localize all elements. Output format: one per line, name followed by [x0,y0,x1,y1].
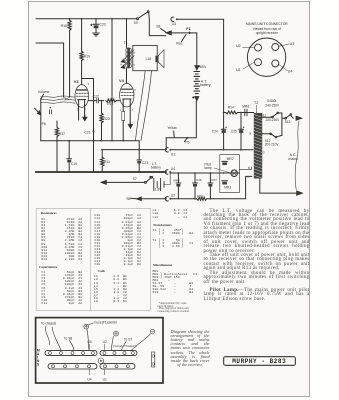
hinge bracket [152,352,155,367]
svg-text:U3: U3 [290,42,295,46]
svg-text:MR6: MR6 [242,105,249,109]
svg-text:220-230V: 220-230V [266,118,281,122]
svg-text:200-210V: 200-210V [265,143,280,147]
fuse F1 [189,32,191,34]
svg-text:P5: P5 [185,140,189,144]
contact strip row 2 left [48,364,97,369]
svg-text:60V: 60V [200,65,207,69]
svg-text:S7: S7 [133,177,137,181]
screw hole [76,365,79,368]
svg-text:U1: U1 [103,378,107,382]
svg-text:C25: C25 [231,130,237,134]
capacitor C20 [95,18,97,20]
svg-text:battery: battery [200,83,211,87]
svg-text:C23: C23 [142,161,148,165]
right text column [204,210,310,302]
center pivot [98,358,104,364]
wire: T2 b tap to rectifier [239,167,251,170]
wire: HT+ top rail [36,18,136,20]
connector pin U2 [255,44,262,51]
svg-text:1: 1 [120,109,122,112]
svg-text:7: 7 [132,109,134,112]
svg-text:R17: R17 [59,132,65,136]
screw hole [113,352,116,355]
svg-text:C24: C24 [212,130,218,134]
svg-text:T1: T1 [124,41,128,45]
HT+ arrow +60V [195,66,199,70]
svg-text:MR2: MR2 [227,157,234,161]
screw hole [60,352,63,355]
svg-text:1.5V: 1.5V [155,187,163,191]
svg-text:U3: U3 [172,22,176,26]
resistor R20 [101,101,103,141]
screw hole [82,352,85,355]
svg-text:battery: battery [151,166,161,170]
contact strip row 1 left [45,350,97,355]
rectifier MR3 [222,180,228,182]
screw hole [104,365,107,368]
svg-text:upright receiver: upright receiver [256,31,279,35]
svg-text:U4: U4 [87,378,91,382]
svg-text:R19: R19 [84,55,90,59]
svg-text:U1: U1 [236,68,241,72]
A.C. mains arrow bottom [260,179,296,194]
contact strip row 2 right [100,364,135,369]
screw hole [88,365,91,368]
svg-text:R13: R13 [197,195,203,199]
wire: T1 to V4 anode [126,68,128,83]
screw hole [115,365,118,368]
wire: AVC line [41,140,139,142]
wire: screen feed [111,18,113,20]
resistor R17 [56,121,58,141]
svg-text:b: b [134,50,136,54]
contact assembly panel [36,318,163,383]
panel wiring curves [52,327,61,351]
svg-text:S: S [37,363,40,367]
capacitor C25 [240,113,242,150]
svg-text:S9: S9 [134,21,138,25]
svg-text:R11: R11 [104,160,110,164]
svg-text:R18: R18 [61,24,67,28]
wire: lower line [102,149,167,151]
screw hole [71,352,74,355]
contact U2 [165,197,168,201]
screw hole [92,352,95,355]
svg-text:4: 4 [84,109,86,112]
MURPHY - B283 model box [223,356,297,366]
svg-text:C26: C26 [196,178,202,182]
svg-text:U4: U4 [288,69,293,73]
screw hole [132,352,135,355]
svg-text:C27: C27 [211,178,217,182]
connector pin U4 [272,60,279,67]
svg-text:S6: S6 [126,197,130,201]
rectifier MR5 [177,173,179,183]
wire: T1 primary feed [126,18,128,20]
loudspeaker cone [155,56,158,63]
resistor R19 [81,18,83,20]
svg-text:S8: S8 [156,25,160,29]
svg-text:P6: P6 [42,122,46,126]
resistor R12 [106,99,116,102]
svg-text:6: 6 [134,89,136,92]
svg-text:To S8: To S8 [64,336,73,340]
rectifier MR2 [222,160,228,162]
svg-text:To S7: To S7 [124,338,133,342]
ground below V3 [84,105,86,117]
svg-text:R14: R14 [228,105,234,109]
screw hole [123,352,126,355]
resistor R13 [171,198,197,200]
wire: V3 anode coupling [82,79,94,129]
component tables [41,212,57,215]
switch S9 [137,18,139,20]
svg-text:mains: mains [288,157,298,161]
resistor R18 [69,18,71,20]
contact U3 [171,17,174,21]
svg-text:S13: S13 [285,120,291,124]
screw hole [64,365,67,368]
rectifier unit frame [220,155,240,193]
contact strip row 1 right [100,350,137,355]
svg-text:U3: U3 [87,340,91,344]
L.T. battery cells [154,178,164,190]
mains connector circle [247,38,285,76]
rectifier MR6 [237,112,253,114]
connector pin U3 [272,44,279,51]
svg-text:S4D: S4D [267,99,274,103]
resistor R11 [101,150,103,172]
svg-text:U2: U2 [103,340,107,344]
capacitor C26 [194,173,196,183]
screw hole [52,365,55,368]
contact U4 [165,170,168,174]
chassis bus [36,171,167,173]
wire: F1 down to HT battery [196,33,198,65]
svg-text:c: c [134,63,136,67]
svg-text:V3: V3 [74,79,80,84]
svg-text:MR3: MR3 [224,185,231,189]
svg-text:Volume: Volume [38,90,50,94]
svg-text:MR5: MR5 [173,178,180,182]
svg-text:Yellow: Yellow [167,126,177,130]
svg-text:To chassis: To chassis [41,322,57,326]
svg-text:L18: L18 [146,57,152,61]
switch S13 [282,117,285,119]
LT plus terminal [114,331,119,336]
wire: U3 to right corner [178,19,224,150]
svg-text:R20: R20 [103,117,109,121]
svg-text:U1: U1 [171,152,175,156]
capacitor C19 [68,141,70,172]
wire: rectifier feed [224,112,226,114]
mains cable [295,121,299,190]
AF coupling wavy wires [41,96,75,97]
wire: S9 to F1 junction [149,13,166,36]
svg-text:T2: T2 [254,101,258,105]
svg-text:R12: R12 [107,102,113,106]
screw hole [127,365,130,368]
svg-text:C20: C20 [99,23,105,27]
H.T. battery cells [194,72,200,94]
minus terminal [150,329,154,333]
wire: R18 branch to AF line [64,97,70,101]
ground below V4 [129,107,131,124]
voltage selector taps [262,116,272,118]
svg-text:U2: U2 [236,44,241,48]
svg-text:240-250V: 240-250V [265,103,280,107]
capacitor C23 [138,141,140,172]
speaker return wires [136,71,146,141]
plug arrow into receiver [166,31,171,35]
HT- arrow [195,97,199,101]
A.C. mains arrow top [296,116,302,120]
screw hole [49,352,52,355]
svg-text:C19: C19 [71,162,77,166]
svg-text:Fuse(F1)carrier: Fuse(F1)carrier [94,320,118,324]
connector pin U1 [255,59,262,66]
wire: U4 rectifier line [170,172,239,174]
table frame [36,209,150,311]
svg-text:MAINS UNIT CONNECTOR: MAINS UNIT CONNECTOR [246,22,288,26]
footnotes under third table [158,303,214,313]
wire: U1 H.T. line [165,148,168,152]
svg-text:F1: F1 [186,27,191,31]
wire: grid return corner [36,43,64,97]
svg-text:S11: S11 [261,113,267,117]
svg-text:C21: C21 [84,131,90,135]
svg-text:d: d [263,150,265,154]
capacitor C24 [221,128,226,130]
svg-text:5: 5 [88,83,90,86]
svg-text:lamp: lamp [204,166,211,170]
HT plus terminal [84,324,89,329]
capacitor C27 [209,173,211,183]
loudspeaker L18 box [133,45,157,70]
V4 cathode resistor [122,112,125,121]
capacitor C21 [49,110,51,114]
svg-text:V4: V4 [119,78,125,83]
capacitor C22 [89,100,104,102]
svg-text:Red: Red [176,42,182,46]
wire: detector return [93,128,95,172]
svg-text:U2: U2 [171,194,175,198]
screw hole [103,352,106,355]
svg-text:U4: U4 [171,167,175,171]
svg-text:From(L.T.battery): From(L.T.battery) [113,344,136,348]
caption of bottom diagram [171,330,210,368]
switch S7 branch [101,181,106,185]
svg-text:a: a [249,132,251,136]
resistor R14 [226,111,238,114]
